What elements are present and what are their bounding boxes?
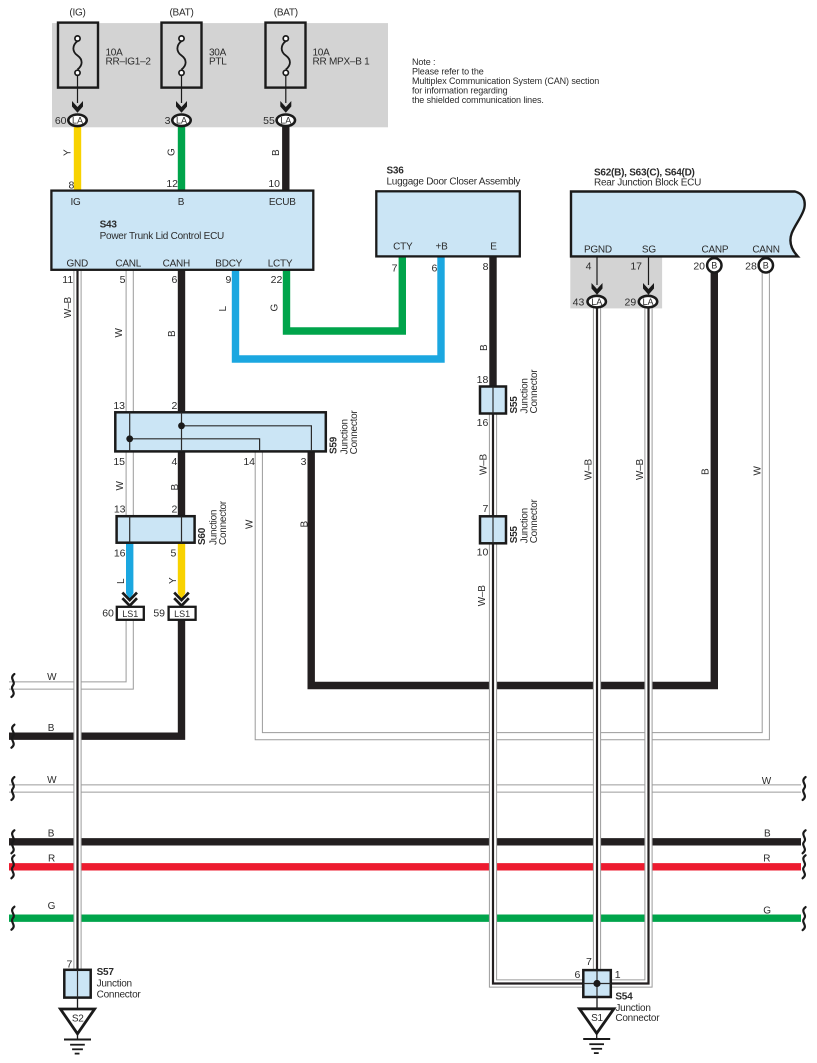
note text <box>412 57 599 105</box>
fuse RR-IG1-2 <box>58 23 98 113</box>
connector 3 LA (fuse2) <box>172 115 190 127</box>
wire B elbow from S59 pin 3 to CANP <box>311 272 714 686</box>
connector 29 LA <box>639 296 657 308</box>
svg-text:16: 16 <box>477 417 489 429</box>
svg-text:(IG): (IG) <box>69 8 85 19</box>
break symbol B bus left <box>11 830 14 853</box>
svg-text:W: W <box>115 481 126 491</box>
PGND pin arrow <box>592 257 603 295</box>
svg-text:Connector: Connector <box>615 1013 660 1024</box>
break symbol G bus left <box>11 907 14 930</box>
svg-text:Connector: Connector <box>97 989 142 1000</box>
label S55 lower <box>509 498 540 543</box>
wire W bus horizontal <box>9 784 801 792</box>
svg-text:60: 60 <box>55 115 67 127</box>
junction connector S60 <box>117 516 195 543</box>
wire Y fuse1 to S43 IG <box>74 127 81 191</box>
svg-text:2: 2 <box>171 400 177 412</box>
svg-text:60: 60 <box>102 607 114 619</box>
svg-text:6: 6 <box>431 263 437 275</box>
svg-text:GND: GND <box>66 258 88 269</box>
break symbol R bus left <box>11 855 14 878</box>
svg-text:Junction: Junction <box>97 979 132 990</box>
svg-text:SG: SG <box>642 245 656 256</box>
svg-text:W–B: W–B <box>477 585 488 607</box>
wire W from S59 pin 15 to S60 pin 13 <box>126 450 134 517</box>
svg-text:13: 13 <box>114 503 126 515</box>
junction connector S55 lower <box>480 516 506 543</box>
svg-text:for information regarding: for information regarding <box>412 86 508 96</box>
svg-text:W–B: W–B <box>635 459 646 481</box>
wire B from S59 pin 4 to S60 pin 2 <box>178 450 185 517</box>
wire B from 59-LS1 to left break <box>9 618 182 736</box>
svg-text:ECUB: ECUB <box>269 197 296 208</box>
svg-text:S59: S59 <box>328 436 339 454</box>
svg-text:S2: S2 <box>72 1014 84 1025</box>
svg-text:B: B <box>711 261 717 271</box>
svg-text:LA: LA <box>591 297 602 307</box>
svg-text:8: 8 <box>69 180 75 192</box>
svg-text:B: B <box>300 521 311 528</box>
wire L elbow from S43 BDCY to S36 +B <box>236 257 442 359</box>
wire W from 60-LS1 to left break <box>9 618 130 686</box>
svg-text:7: 7 <box>482 503 488 515</box>
svg-text:55: 55 <box>263 115 275 127</box>
ground S1 <box>580 997 614 1053</box>
svg-text:G: G <box>269 304 280 312</box>
label S60 <box>197 500 229 545</box>
svg-text:S36: S36 <box>387 165 405 176</box>
svg-text:W: W <box>753 466 764 476</box>
wire G fuse2 to S43 B <box>178 127 185 192</box>
svg-text:RR MPX–B 1: RR MPX–B 1 <box>313 57 371 68</box>
wire B fuse3 to S43 ECUB <box>282 127 289 191</box>
break symbol B1 left <box>11 725 14 748</box>
svg-text:BDCY: BDCY <box>215 258 242 269</box>
break symbol G bus right <box>803 907 806 930</box>
svg-text:the shielded communication lin: the shielded communication lines. <box>412 95 544 105</box>
svg-text:LS1: LS1 <box>174 609 190 619</box>
svg-text:W: W <box>762 776 772 787</box>
svg-text:5: 5 <box>171 547 177 559</box>
ECU S36 Luggage Door Closer Assembly <box>376 191 520 256</box>
break symbol W bus right <box>803 777 806 800</box>
svg-text:G: G <box>167 148 178 156</box>
svg-text:RR–IG1–2: RR–IG1–2 <box>106 57 152 68</box>
label S36 <box>387 165 521 187</box>
svg-text:5: 5 <box>120 274 126 286</box>
svg-text:B: B <box>764 828 771 839</box>
junction connector S55 upper <box>480 387 506 414</box>
svg-text:(BAT): (BAT) <box>169 8 193 19</box>
svg-text:6: 6 <box>171 274 177 286</box>
wire B from S36 E to S55 pin 18 <box>489 256 496 387</box>
svg-text:Note :: Note : <box>412 57 435 67</box>
svg-text:B: B <box>178 197 185 208</box>
svg-text:B: B <box>763 261 769 271</box>
junction connector S54 <box>583 970 611 997</box>
svg-text:Connector: Connector <box>218 500 229 545</box>
connector 55 LA (fuse3) <box>277 115 295 127</box>
break symbol W1 left <box>11 674 14 697</box>
svg-text:W: W <box>244 519 255 529</box>
svg-text:6: 6 <box>575 969 581 981</box>
svg-text:G: G <box>48 901 56 912</box>
wire W-B from S43 GND to S57 <box>73 269 81 971</box>
svg-text:4: 4 <box>586 260 592 272</box>
fuse RR MPX-B 1 <box>266 23 306 113</box>
svg-text:11: 11 <box>62 274 73 286</box>
wire W-B from 43-LA to S54 pin 7 <box>593 308 601 971</box>
SG pin arrow <box>643 257 654 295</box>
svg-text:22: 22 <box>271 274 283 286</box>
svg-text:S43: S43 <box>100 219 118 230</box>
svg-text:LCTY: LCTY <box>268 258 293 269</box>
svg-text:20: 20 <box>693 260 705 272</box>
wire G bus horizontal <box>9 915 801 922</box>
label S54 <box>615 992 660 1025</box>
svg-text:8: 8 <box>483 261 489 273</box>
svg-text:R: R <box>48 853 55 864</box>
svg-text:B: B <box>479 344 490 351</box>
svg-text:W: W <box>114 328 125 338</box>
break symbol R bus right <box>803 855 806 878</box>
svg-text:L: L <box>218 306 229 312</box>
connector 59 LS1 <box>169 607 196 620</box>
svg-text:3: 3 <box>165 115 171 127</box>
svg-text:B: B <box>271 149 282 156</box>
svg-text:B: B <box>701 468 712 475</box>
wire G elbow from S43 LCTY to S36 CTY <box>287 257 403 331</box>
wire B bus horizontal <box>9 838 801 845</box>
svg-text:LA: LA <box>280 116 291 126</box>
svg-text:LA: LA <box>642 297 653 307</box>
svg-text:7: 7 <box>66 959 72 971</box>
ECU S43 Power Trunk Lid Control ECU <box>51 191 313 270</box>
wire W-B from 29-LA to S54 pin 1 <box>610 308 649 984</box>
S43 top pin names <box>70 197 296 208</box>
svg-text:Connector: Connector <box>349 410 360 455</box>
S43 bottom pin names <box>66 258 292 269</box>
svg-text:Power Trunk Lid Control ECU: Power Trunk Lid Control ECU <box>100 231 224 242</box>
svg-text:+B: +B <box>435 242 448 253</box>
svg-text:CANH: CANH <box>163 258 190 269</box>
svg-text:43: 43 <box>573 296 585 308</box>
break symbol B bus right <box>803 830 806 853</box>
svg-text:S57: S57 <box>97 967 115 978</box>
svg-text:28: 28 <box>745 260 757 272</box>
svg-text:7: 7 <box>392 263 398 275</box>
svg-text:B: B <box>48 723 55 734</box>
svg-text:Y: Y <box>168 577 179 584</box>
label S55 upper <box>509 369 540 414</box>
svg-text:B: B <box>48 828 55 839</box>
svg-text:S1: S1 <box>591 1013 603 1024</box>
svg-text:7: 7 <box>586 956 592 968</box>
svg-text:W: W <box>47 775 57 786</box>
wire R bus horizontal <box>9 863 801 870</box>
svg-text:PTL: PTL <box>209 57 227 68</box>
wire B from S43 CANH to S59 pin 2 <box>178 269 185 413</box>
label S62/S63/S64 <box>594 167 701 188</box>
svg-text:17: 17 <box>630 260 642 272</box>
svg-text:(BAT): (BAT) <box>274 8 298 19</box>
junction connector S59 <box>115 412 325 451</box>
svg-text:CANN: CANN <box>752 245 779 256</box>
svg-text:R: R <box>763 854 770 865</box>
power source gray band <box>52 23 388 127</box>
svg-text:Connector: Connector <box>529 369 540 414</box>
svg-text:13: 13 <box>113 400 125 412</box>
svg-text:Y: Y <box>63 149 74 156</box>
svg-text:PGND: PGND <box>584 245 612 256</box>
wire W-B from S55 pin 10 to S54 pin 6 <box>493 543 584 984</box>
svg-text:W–B: W–B <box>584 459 595 481</box>
wire L from S60 pin 16 to 60-LS1 <box>126 542 133 593</box>
svg-text:CANL: CANL <box>115 258 141 269</box>
label fuse1 rating <box>106 47 152 67</box>
svg-text:10: 10 <box>268 178 280 190</box>
svg-text:Connector: Connector <box>529 498 540 543</box>
svg-text:CTY: CTY <box>393 242 413 253</box>
fuse PTL <box>162 23 202 113</box>
svg-text:Multiplex Communication System: Multiplex Communication System (CAN) sec… <box>412 76 599 86</box>
svg-text:10: 10 <box>477 547 489 559</box>
connector 43 LA <box>588 296 606 308</box>
svg-text:9: 9 <box>225 274 231 286</box>
svg-text:S60: S60 <box>197 527 208 545</box>
connector 20 B circle (CANP) <box>707 258 721 272</box>
svg-text:IG: IG <box>70 197 81 208</box>
svg-text:4: 4 <box>171 456 177 468</box>
svg-text:LA: LA <box>176 116 187 126</box>
svg-text:Luggage Door Closer Assembly: Luggage Door Closer Assembly <box>387 176 521 187</box>
svg-text:16: 16 <box>114 547 126 559</box>
arrow chevrons above 59-LS1 <box>174 593 189 606</box>
svg-text:G: G <box>763 905 771 916</box>
svg-text:W: W <box>47 672 57 683</box>
svg-text:59: 59 <box>153 607 165 619</box>
svg-text:12: 12 <box>166 178 178 190</box>
connector 28 B circle (CANN) <box>759 258 773 272</box>
label fuse3 rating <box>313 47 371 67</box>
svg-text:S55: S55 <box>509 526 520 544</box>
svg-text:W–B: W–B <box>63 297 74 319</box>
svg-text:18: 18 <box>477 374 489 386</box>
svg-text:B: B <box>170 484 181 491</box>
svg-text:29: 29 <box>625 296 637 308</box>
connector 60 LA (fuse1) <box>68 115 86 127</box>
label S59 <box>328 410 360 455</box>
label S43 <box>100 219 224 242</box>
svg-text:14: 14 <box>243 456 255 468</box>
wire W-B from S55 pin 16 to S55 pin 7 <box>489 413 497 517</box>
svg-text:3: 3 <box>301 456 307 468</box>
ground S2 <box>60 998 94 1054</box>
junction connector S57 <box>64 970 90 998</box>
wire W elbow from S59 pin 14 to CANN <box>259 272 766 736</box>
svg-text:E: E <box>490 242 497 253</box>
break symbol W bus left <box>11 777 14 800</box>
svg-text:CANP: CANP <box>702 245 729 256</box>
svg-text:W–B: W–B <box>479 454 490 476</box>
wire Y from S60 pin 5 to 59-LS1 <box>178 542 185 593</box>
ECU S62/S63/S64 Rear Junction Block with torn right edge <box>571 192 805 257</box>
svg-text:S55: S55 <box>509 396 520 414</box>
wire W from S43 CANL to S59 pin 13 <box>126 269 134 413</box>
svg-text:Please refer to the: Please refer to the <box>412 66 484 76</box>
svg-text:Rear Junction Block ECU: Rear Junction Block ECU <box>594 178 701 189</box>
shield gray box (PGND/SG connectors) <box>570 256 662 308</box>
connector 60 LS1 <box>117 607 144 620</box>
svg-text:15: 15 <box>113 456 125 468</box>
arrow chevrons above 60-LS1 <box>122 593 137 606</box>
svg-text:1: 1 <box>615 969 621 981</box>
svg-text:L: L <box>116 578 127 584</box>
S36 pin names <box>393 242 497 253</box>
svg-text:LS1: LS1 <box>122 609 138 619</box>
label fuse2 rating <box>209 47 227 67</box>
svg-text:S54: S54 <box>615 992 633 1003</box>
Rear junction block pin names <box>584 245 780 256</box>
svg-text:B: B <box>167 330 178 337</box>
svg-text:2: 2 <box>172 503 178 515</box>
label S57 <box>97 967 142 1001</box>
svg-text:LA: LA <box>72 116 83 126</box>
